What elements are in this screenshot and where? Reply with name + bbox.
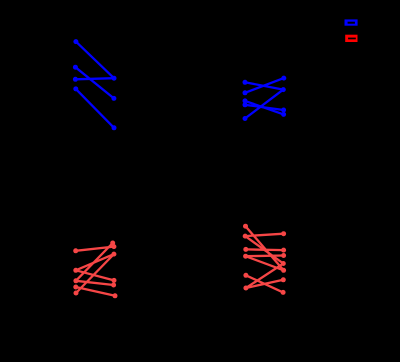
wire BR pair8 bbox=[246, 256, 284, 270]
wire BR pair7 bbox=[246, 280, 283, 288]
wire BL pair4 bbox=[76, 243, 113, 281]
wire TR pair2 bbox=[245, 78, 284, 93]
node BR dots bbox=[243, 224, 286, 295]
wire BR pair2 bbox=[245, 234, 283, 236]
wire TR pair3 bbox=[245, 101, 284, 115]
wire BL pair3 bbox=[76, 270, 114, 280]
wire BL pair7 bbox=[76, 254, 114, 293]
node TL dots bbox=[73, 39, 117, 130]
wire TL pair3 bbox=[75, 78, 114, 79]
wire TR pair4 bbox=[245, 105, 284, 110]
node TR dots bbox=[243, 76, 287, 121]
wire BR pair5 bbox=[246, 254, 284, 257]
wire BR pair1 bbox=[246, 226, 284, 270]
wire TR pair5 bbox=[245, 90, 283, 119]
wire BL pair2 bbox=[76, 254, 114, 270]
wire BR pair4 bbox=[246, 248, 284, 251]
wire TL pair1 bbox=[76, 42, 114, 79]
wire TL pair4 bbox=[76, 89, 114, 128]
wire BL pair6 bbox=[76, 287, 115, 296]
top-left paired lines (blue) bbox=[75, 42, 114, 128]
wire BR pair3 bbox=[245, 236, 283, 263]
wire TR pair1 bbox=[245, 82, 283, 89]
wire BR pair9 bbox=[246, 264, 283, 289]
wire TL pair2 bbox=[75, 67, 114, 98]
bottom-right paired lines (red) bbox=[245, 226, 283, 292]
legend swatch red bbox=[345, 35, 357, 42]
bottom-left paired lines (red) bbox=[76, 243, 115, 296]
top-right paired lines (blue) bbox=[245, 78, 284, 118]
wire BR pair6 bbox=[246, 275, 283, 292]
wire BL pair5 bbox=[76, 281, 114, 285]
node BL dots bbox=[73, 241, 117, 299]
wire BL pair1 bbox=[76, 247, 114, 251]
legend swatch blue bbox=[345, 19, 358, 25]
